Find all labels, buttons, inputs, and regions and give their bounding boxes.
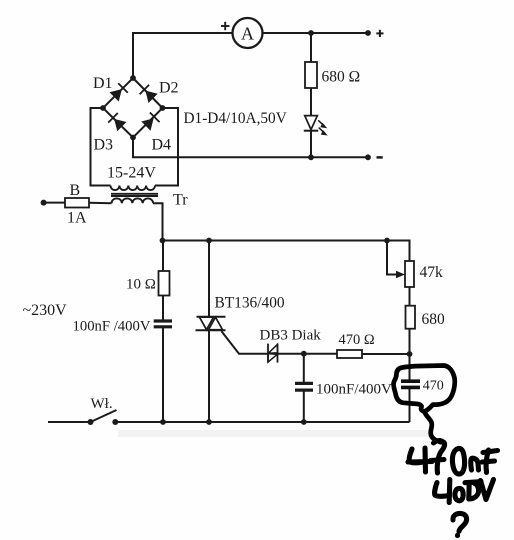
node bottom rail 10ohm (160, 419, 166, 425)
transformer Tr core (111, 194, 158, 196)
wire LED to minus rail (310, 131, 312, 158)
node bridge right (160, 105, 166, 111)
svg-text:100nF /400V: 100nF /400V (73, 319, 151, 335)
svg-text:DB3 Diak: DB3 Diak (260, 328, 322, 344)
wire 470 cap to bottom rail (409, 389, 411, 422)
resistor 680ohm (305, 62, 360, 88)
wire 680 to LED (310, 88, 312, 116)
switch Wl. (88, 396, 119, 425)
svg-text:B: B (70, 182, 81, 199)
LED (304, 116, 328, 136)
wire triac to bottom rail (208, 330, 210, 422)
svg-text:Wł.: Wł. (91, 396, 113, 412)
diode D1 (93, 75, 128, 102)
diode D4 (141, 113, 171, 154)
scan shading band (118, 430, 433, 437)
wire bridge right frame (155, 108, 178, 186)
node bridge top (130, 75, 136, 81)
wire top rail right of ammeter (262, 32, 368, 34)
node rail transformer (160, 238, 166, 244)
resistor 10ohm (126, 271, 170, 296)
wire 10ohm to cap (162, 296, 164, 320)
node bottom rail cap (301, 419, 307, 425)
svg-text:100nF/400V: 100nF/400V (316, 382, 392, 398)
svg-text:~230V: ~230V (23, 302, 68, 319)
wire gate node to lower cap (303, 354, 305, 383)
diac DB3 (260, 328, 322, 363)
svg-text:470: 470 (423, 379, 444, 394)
handwritten question mark (453, 513, 467, 535)
svg-text:BT136/400: BT136/400 (215, 295, 285, 312)
svg-text:1A: 1A (67, 210, 87, 227)
wire node to 470 cap (409, 354, 411, 380)
node rail triac (206, 238, 212, 244)
wire bottom rail left (48, 421, 91, 423)
node bottom rail triac (206, 419, 212, 425)
wire minus rail (133, 138, 368, 158)
switch lever (91, 410, 117, 422)
svg-text:15-24V: 15-24V (107, 165, 156, 182)
node gate cap junction (301, 351, 307, 357)
wire 470ohm to right branch (362, 353, 410, 355)
terminal minus (365, 154, 383, 160)
wire main rail (163, 241, 410, 262)
svg-text:D1: D1 (93, 75, 113, 92)
wire pot wiper (387, 241, 397, 275)
node bridge left (100, 105, 106, 111)
fuse B 1A (65, 182, 89, 227)
node bridge bottom (130, 135, 136, 141)
svg-text:470 Ω: 470 Ω (339, 332, 375, 348)
svg-text:680 Ω: 680 Ω (322, 69, 361, 86)
resistor 680 (406, 306, 446, 329)
svg-text:10 Ω: 10 Ω (126, 277, 156, 293)
resistor 470ohm (337, 332, 375, 358)
svg-text:A: A (241, 24, 254, 44)
triac BT136/400 (196, 295, 285, 331)
wire fuse to terminal (44, 202, 65, 204)
handwritten 400V (435, 480, 494, 503)
wire pot to 680 (409, 287, 411, 306)
capacitor 100nF/400V lower (295, 382, 392, 398)
node top junction 680 (308, 30, 314, 36)
svg-text:680: 680 (422, 311, 446, 328)
transformer Tr primary winding (112, 198, 154, 203)
wire fuse to primary (89, 202, 112, 204)
wire bottom rail right (115, 421, 409, 423)
diode D2 (140, 80, 179, 104)
transformer Tr secondary winding (111, 186, 155, 191)
wire 680 branch top (310, 33, 312, 62)
ammeter A (221, 18, 263, 48)
handwritten 470nF (408, 441, 498, 475)
wire primary to main rail (153, 203, 163, 240)
terminal fuse input (41, 200, 47, 206)
wire bridge left frame (91, 108, 111, 186)
svg-text:D1-D4/10A,50V: D1-D4/10A,50V (184, 110, 287, 127)
wire triac gate (222, 331, 269, 354)
capacitor 470 (401, 379, 444, 394)
terminal plus (365, 30, 383, 37)
wire lower cap to bottom rail (303, 391, 305, 422)
wire top rail left of ammeter (133, 33, 233, 78)
potentiometer 47k (396, 261, 443, 287)
svg-text:47k: 47k (420, 264, 444, 281)
capacitor 100nF/400V upper (73, 319, 173, 335)
wire rail to 10ohm (162, 241, 164, 272)
wire diac to 470ohm (278, 353, 338, 355)
node minus junction LED (308, 154, 314, 160)
node 470 junction (407, 351, 413, 357)
annotation arrow tail (425, 412, 442, 443)
node rail wiper (384, 238, 390, 244)
wire rail to triac (208, 241, 210, 317)
svg-text:Tr: Tr (173, 192, 188, 209)
annotation circle around 470 cap (394, 366, 455, 412)
wire 680 to node (409, 329, 411, 354)
diode D3 (94, 113, 127, 154)
bridge diamond arms (103, 78, 163, 138)
svg-text:D4: D4 (152, 137, 172, 154)
svg-text:D3: D3 (94, 137, 114, 154)
svg-text:D2: D2 (159, 80, 179, 97)
wire cap to bottom rail (162, 328, 164, 422)
